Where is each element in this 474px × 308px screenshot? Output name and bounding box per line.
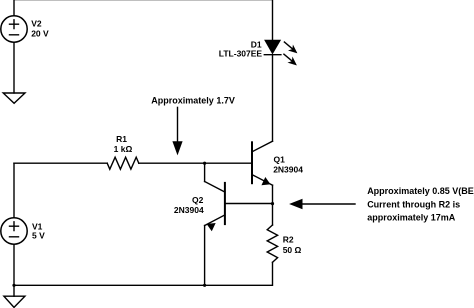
svg-text:Current through R2 is: Current through R2 is — [367, 199, 460, 209]
wire Q2 emitter to bottom rail — [204, 226, 206, 286]
node C: V1 / bottom rail / ground junction — [12, 284, 15, 287]
LED D1 — [264, 40, 297, 65]
resistor R2 — [267, 225, 277, 262]
ground (V1) — [4, 296, 25, 307]
wire Q1 emitter to node — [272, 185, 274, 203]
svg-text:5 V: 5 V — [32, 231, 45, 241]
svg-text:Q2: Q2 — [192, 195, 204, 205]
transistor Q1 — [252, 141, 273, 185]
svg-text:50 Ω: 50 Ω — [283, 245, 302, 255]
svg-text:LTL-307EE: LTL-307EE — [219, 48, 263, 58]
annotation arrow left (V(BE)) — [289, 199, 355, 209]
label R2 50 Ohm — [283, 235, 302, 255]
label Q2 2N3904 — [174, 195, 204, 215]
transistor Q2 — [205, 182, 225, 231]
voltage source V1 — [1, 218, 27, 244]
wire LED cathode to Q1 collector — [272, 55, 274, 142]
svg-text:20 V: 20 V — [31, 29, 49, 39]
svg-text:R2: R2 — [283, 235, 294, 245]
svg-text:2N3904: 2N3904 — [273, 165, 303, 175]
wire top rail from V2 to LED — [14, 0, 273, 40]
svg-text:2N3904: 2N3904 — [174, 205, 204, 215]
svg-text:Approximately 1.7V: Approximately 1.7V — [151, 95, 235, 105]
wire V1 bottom to rail — [13, 244, 15, 285]
svg-text:1 kΩ: 1 kΩ — [114, 144, 133, 154]
wire R2 to bottom rail — [14, 262, 273, 285]
label V1 5 V — [32, 221, 45, 240]
label Q1 2N3904 — [273, 155, 303, 175]
wire Q2 collector to node A — [204, 163, 206, 181]
ground (V2) — [3, 93, 25, 103]
wire Q1 base / R1 net — [139, 162, 252, 164]
node A: Q2 collector to base net junction — [203, 162, 206, 165]
wire node B to R2 — [272, 204, 274, 225]
label R1 1 kOhm — [114, 134, 133, 154]
voltage source V2 — [1, 16, 27, 42]
annotation arrow down (1.7V) — [172, 107, 182, 155]
wire rail to ground — [13, 285, 15, 296]
wire V2 to ground — [13, 42, 15, 93]
wire Q2 base to node B — [225, 203, 273, 205]
label D1 LTL-307EE — [219, 39, 263, 58]
svg-text:R1: R1 — [116, 134, 127, 144]
node D: Q2 emitter on bottom rail — [203, 284, 206, 287]
wire V1 top to base net — [13, 163, 15, 218]
svg-text:Q1: Q1 — [274, 155, 286, 165]
svg-text:approximately 17mA: approximately 17mA — [367, 213, 456, 223]
label V2 20 V — [31, 19, 49, 39]
node B: Q1 emitter / Q2 base / R2 junction — [271, 202, 274, 205]
resistor R1 — [107, 157, 139, 169]
svg-text:V2: V2 — [31, 19, 42, 29]
svg-text:Approximately 0.85 V(BE): Approximately 0.85 V(BE) — [367, 186, 474, 196]
annotation text V(BE) current — [367, 186, 474, 223]
